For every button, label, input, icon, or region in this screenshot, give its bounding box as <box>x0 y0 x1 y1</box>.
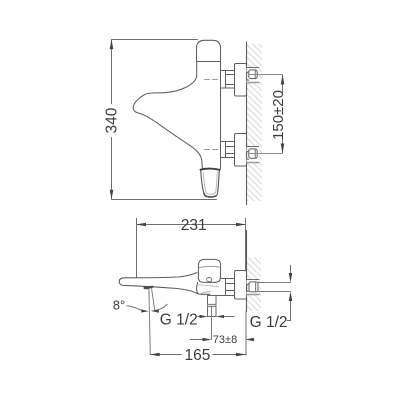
extension line right lower segment <box>245 312 247 356</box>
upper connection centerline dashes <box>205 79 225 81</box>
shower pipe centerline extension <box>211 307 213 340</box>
upper in-wall socket bottom line <box>247 82 259 84</box>
upper in-wall socket top line <box>247 67 259 69</box>
body block seam line <box>198 285 219 287</box>
svg-text:165: 165 <box>184 347 210 364</box>
lower union nut facet <box>254 150 256 158</box>
svg-text:73±8: 73±8 <box>213 334 237 346</box>
dimension 231 arrows <box>136 223 146 227</box>
flange escutcheon bottom view <box>235 271 247 300</box>
dimension 73±8 <box>190 339 209 341</box>
connection pipe bottom view <box>221 279 235 296</box>
handle inner contour <box>203 172 217 194</box>
lower hex nut assembly <box>221 142 235 158</box>
handle top joint arc <box>201 169 220 170</box>
shower pipe step bars <box>208 304 217 306</box>
handle lever top view <box>201 170 220 197</box>
wall line top view <box>246 42 248 205</box>
lower centerline to dimension <box>250 153 283 155</box>
dimension 150±20 line <box>282 75 284 152</box>
extension line right shared <box>245 218 247 270</box>
shower outlet pipe <box>208 296 217 317</box>
angle arc right arrowhead <box>152 310 159 313</box>
upper union nut <box>249 70 257 79</box>
svg-text:340: 340 <box>104 107 121 133</box>
extension line 231 left <box>136 218 138 277</box>
lower union collar <box>247 151 249 160</box>
knob seam <box>199 266 221 268</box>
dimension 231 line <box>137 224 246 226</box>
upper union collar <box>247 71 249 80</box>
dimension 165 <box>150 354 181 356</box>
lower wall hole knockout <box>247 147 259 163</box>
lower flange escutcheon <box>235 134 247 167</box>
lower union nut <box>249 149 257 158</box>
upper hex nut assembly <box>221 71 235 89</box>
lower in-wall socket top line <box>247 146 259 148</box>
svg-text:G 1/2: G 1/2 <box>160 312 198 329</box>
wall hatching bottom view <box>247 258 261 312</box>
angle leader arc left <box>127 306 142 311</box>
extension line bottom of 340 <box>112 199 217 201</box>
upper flange escutcheon <box>235 64 247 97</box>
wall line bottom view <box>246 231 248 312</box>
G 1/2 right dimension vertical <box>287 265 290 320</box>
svg-text:G 1/2: G 1/2 <box>250 314 288 331</box>
upper union nut facet <box>254 71 256 79</box>
spout outline bottom view <box>119 273 197 294</box>
in-wall socket lines bottom view <box>247 279 259 281</box>
union collar bottom view <box>247 283 249 291</box>
angle arc right <box>152 304 167 311</box>
wall hatching top view <box>247 44 262 201</box>
knob bottom view <box>198 259 220 282</box>
faucet cap top view <box>197 40 221 61</box>
angle leader left arrowhead <box>141 309 148 312</box>
svg-text:150±20: 150±20 <box>270 90 287 140</box>
lower connection centerline dashes <box>205 149 225 151</box>
wall hole knockout bottom view <box>247 280 259 295</box>
body block bottom curve <box>200 291 211 294</box>
water reference vertical line <box>149 289 150 354</box>
faucet body right edge top view <box>219 62 220 170</box>
svg-text:8°: 8° <box>113 297 125 312</box>
handle bottom emphasize <box>204 193 216 197</box>
svg-text:231: 231 <box>181 217 207 234</box>
dimension 340 arrows <box>110 39 114 49</box>
union nut facet bottom view <box>255 283 257 292</box>
water stream 8 degree line <box>152 289 155 312</box>
supply pipe lines <box>258 282 291 284</box>
faucet body and spout outline top view <box>133 62 203 170</box>
knob dot <box>207 278 212 282</box>
G 1/2 left arrow line <box>198 316 205 318</box>
spout aerator outlet <box>143 286 153 290</box>
G 1/2 right arrow line <box>219 316 235 318</box>
dimension 340 vertical line <box>111 40 113 199</box>
upper centerline to dimension <box>250 74 283 76</box>
dimension 150±20 arrows <box>281 75 285 85</box>
hex nut bottom view <box>225 279 227 296</box>
union nut bottom view <box>249 282 258 292</box>
lower in-wall socket bottom line <box>247 162 259 164</box>
upper wall hole knockout <box>247 68 259 83</box>
body block bottom view <box>197 282 235 295</box>
extension line top of 340 <box>112 39 198 41</box>
